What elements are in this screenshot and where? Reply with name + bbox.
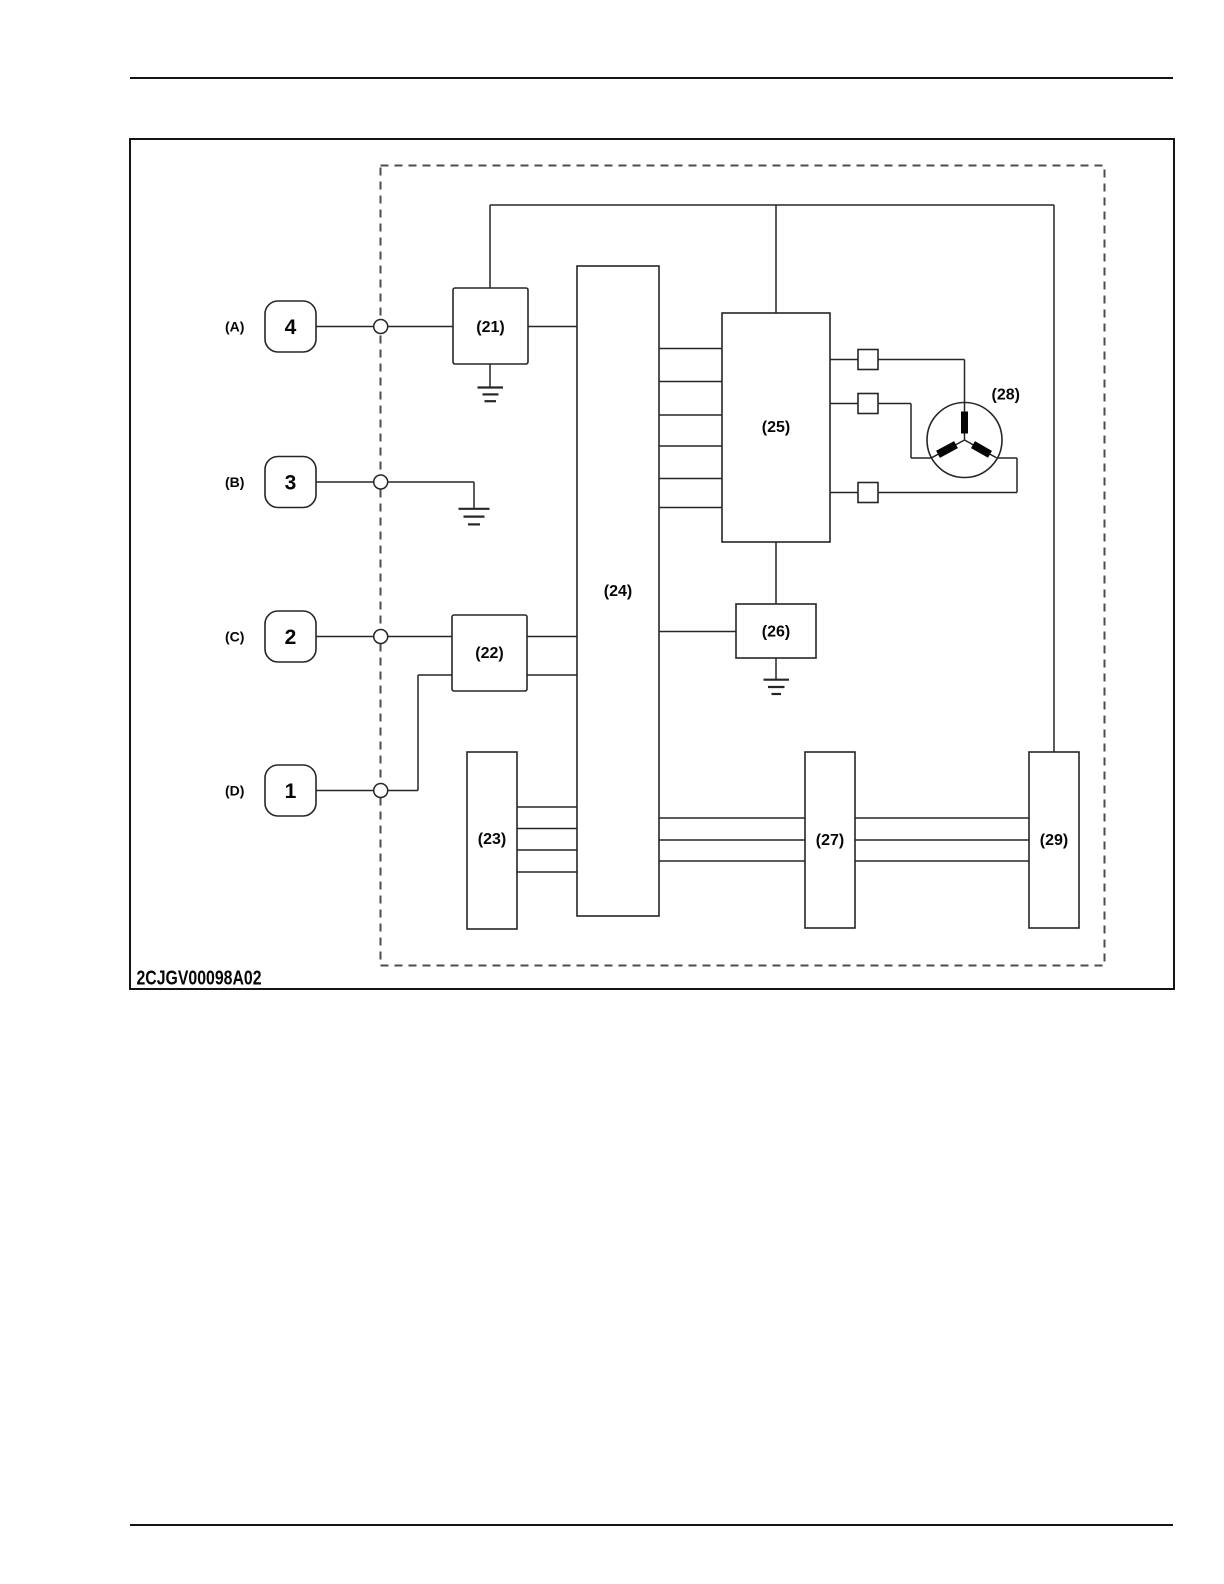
svg-text:(D): (D) [225,783,244,799]
block (29) [1029,752,1079,928]
wire (block 21 to block 24) [528,326,577,328]
ground (below block 21) [478,364,504,401]
svg-text:3: 3 [285,472,297,495]
junction circle C [374,630,388,644]
wire (25 to 26) [775,542,777,604]
svg-text:2: 2 [285,626,297,649]
svg-text:4: 4 [285,316,297,339]
svg-text:(C): (C) [225,629,244,645]
svg-text:(23): (23) [478,831,506,848]
connector 4 [265,301,316,352]
wire (square 1 to fan top) [878,360,965,404]
wire (block 22 left to row D) [418,675,452,791]
wire (drop from bus to block 25) [775,205,777,313]
block (22) [452,615,527,691]
relay square 3 [858,483,878,503]
wire (24 to 27 line 3) [659,860,805,862]
wire (square 2 to fan lower-left) [878,404,932,459]
wire (block 22 lower output to block 24) [527,674,577,676]
wire (27 to 29 line 2) [855,839,1029,841]
wire (top supply bus y=205) [490,204,1054,206]
svg-text:(27): (27) [816,832,844,849]
relay square 2 [858,394,878,414]
wire (drop from bus to block 29) [1053,205,1055,752]
wire (24 to 25 line 2) [659,381,722,383]
wire (24 to 26) [659,631,736,633]
svg-text:(24): (24) [604,583,632,600]
wire (square 3 to fan lower-right) [878,458,1017,493]
wire (junction A to block 21) [388,326,453,328]
connector 3 [265,457,316,508]
wire (23 to 24 line 2) [517,828,577,830]
wire (24 to 25 line 6) [659,507,722,509]
block (24) [577,266,659,916]
block (27) [805,752,855,928]
wire (connector 3 to junction) [316,481,374,483]
block (23) [467,752,517,929]
svg-text:1: 1 [285,780,297,803]
wire (25 to relay square 1) [830,359,858,361]
svg-text:2CJGV00098A02: 2CJGV00098A02 [137,968,262,990]
wire (connector 2 to junction) [316,636,374,638]
wire (connector 4 to junction) [316,326,374,328]
svg-text:(25): (25) [762,419,790,436]
block (26) [736,604,816,658]
wire (24 to 25 line 3) [659,414,722,416]
svg-text:(29): (29) [1040,832,1068,849]
ground (below block 26) [764,658,790,694]
wire (23 to 24 line 3) [517,849,577,851]
wire (block 22 upper output to block 24) [527,636,577,638]
ground (row B) [459,509,490,525]
relay square 1 [858,350,878,370]
wire (24 to 27 line 1) [659,817,805,819]
wire (24 to 25 line 5) [659,478,722,480]
wire (junction C to block 22) [388,636,452,638]
wire (25 to relay square 2) [830,403,858,405]
module boundary (dashed control-unit outline) [381,166,1105,966]
svg-text:(B): (B) [225,474,244,490]
block (25) [722,313,830,542]
wire (23 to 24 line 4) [517,871,577,873]
wire (25 to relay square 3) [830,492,858,494]
junction circle D [374,784,388,798]
wire (27 to 29 line 1) [855,817,1029,819]
wire (connector 1 to junction) [316,790,374,792]
wire (junction B to ground) [388,482,474,508]
block (21) [453,288,528,364]
wire (24 to 25 line 4) [659,445,722,447]
wire (24 to 27 line 2) [659,839,805,841]
wire (27 to 29 line 3) [855,860,1029,862]
svg-text:(26): (26) [762,624,790,641]
svg-text:(22): (22) [475,645,503,662]
svg-text:(28): (28) [992,387,1020,404]
connector 1 [265,765,316,816]
wire (23 to 24 line 1) [517,806,577,808]
wire (24 to 25 line 1) [659,348,722,350]
fan motor (28) [927,403,1002,478]
junction circle B [374,475,388,489]
wire (drop from bus to block 21) [489,205,491,288]
junction circle A [374,320,388,334]
svg-text:(A): (A) [225,319,244,335]
svg-text:(21): (21) [476,319,504,336]
wire (junction D to riser) [388,790,418,792]
connector 2 [265,611,316,662]
